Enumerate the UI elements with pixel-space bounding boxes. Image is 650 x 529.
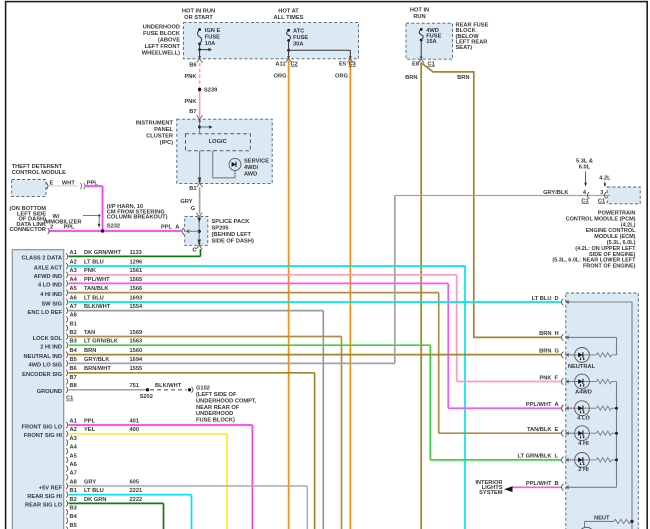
svg-text:1563: 1563: [130, 339, 143, 345]
svg-text:3: 3: [600, 190, 603, 196]
svg-text:A3: A3: [70, 436, 77, 442]
svg-text:E8: E8: [412, 61, 419, 67]
svg-text:A4WD: A4WD: [575, 390, 592, 396]
svg-text:30A: 30A: [293, 42, 303, 48]
svg-text:(IPC): (IPC): [160, 140, 173, 146]
svg-text:FUSE BLOCK): FUSE BLOCK): [196, 418, 235, 424]
svg-text:OR START: OR START: [184, 15, 213, 21]
svg-text:B6: B6: [70, 366, 77, 372]
svg-text:2222: 2222: [130, 497, 143, 503]
svg-text:A5: A5: [70, 286, 77, 292]
svg-text:GRY/BLK: GRY/BLK: [543, 190, 569, 196]
svg-text:NEAR REAR OF: NEAR REAR OF: [196, 405, 240, 411]
svg-text:S202: S202: [140, 394, 153, 400]
svg-text:YEL: YEL: [84, 427, 96, 433]
svg-text:HOT IN: HOT IN: [410, 8, 429, 14]
svg-text:COLUMN BREAKOUT): COLUMN BREAKOUT): [107, 215, 168, 221]
svg-text:PNK: PNK: [84, 268, 97, 274]
svg-text:LT GRN/BLK: LT GRN/BLK: [84, 339, 119, 345]
svg-text:TAN/BLK: TAN/BLK: [84, 286, 109, 292]
svg-text:B: B: [555, 481, 559, 487]
svg-text:IMMOBILIZER: IMMOBILIZER: [44, 220, 82, 226]
svg-text:GRY: GRY: [84, 479, 96, 485]
svg-text:SP205: SP205: [212, 226, 229, 232]
svg-text:400: 400: [130, 427, 140, 433]
svg-text:HOT AT: HOT AT: [278, 8, 299, 14]
svg-text:6.0L: 6.0L: [579, 165, 591, 171]
svg-text:(LEFT SIDE OF: (LEFT SIDE OF: [196, 392, 237, 398]
svg-text:B8: B8: [70, 383, 77, 389]
svg-text:B5: B5: [70, 357, 77, 363]
svg-text:GROUND: GROUND: [37, 389, 62, 395]
svg-text:L: L: [555, 454, 559, 460]
svg-text:CLASS 2 DATA: CLASS 2 DATA: [21, 256, 62, 262]
svg-text:1296: 1296: [130, 259, 143, 265]
svg-text:C1: C1: [598, 198, 605, 204]
svg-text:(BEHIND LEFT: (BEHIND LEFT: [212, 232, 252, 238]
svg-text:A1: A1: [70, 250, 77, 256]
svg-text:WHT: WHT: [62, 181, 75, 187]
svg-text:UNDERHOOD: UNDERHOOD: [143, 25, 180, 31]
svg-text:ALL TIMES: ALL TIMES: [274, 15, 304, 21]
svg-text:B7: B7: [70, 375, 77, 381]
svg-text:4 LO IND: 4 LO IND: [38, 283, 62, 289]
svg-text:WHEELWELL): WHEELWELL): [142, 51, 180, 57]
svg-text:B3: B3: [70, 506, 77, 512]
svg-text:BRN: BRN: [84, 348, 96, 354]
svg-text:PPL/WHT: PPL/WHT: [526, 402, 552, 408]
svg-text:PPL: PPL: [87, 181, 99, 187]
svg-text:NEUTRAL IND: NEUTRAL IND: [24, 354, 62, 360]
svg-text:B4: B4: [70, 514, 78, 520]
svg-text:A11: A11: [275, 62, 285, 68]
svg-text:B5: B5: [70, 523, 77, 529]
svg-text:PPL/WHT: PPL/WHT: [84, 277, 110, 283]
svg-text:1694: 1694: [130, 357, 143, 363]
svg-text:AFWD IND: AFWD IND: [34, 274, 62, 280]
svg-text:2221: 2221: [130, 488, 143, 494]
svg-text:B4: B4: [70, 348, 78, 354]
svg-text:A: A: [175, 225, 179, 231]
svg-text:B7: B7: [189, 109, 196, 115]
svg-text:G102: G102: [196, 386, 210, 392]
svg-text:CONTROL MODULE: CONTROL MODULE: [12, 170, 66, 176]
svg-text:4WD LO SIG: 4WD LO SIG: [29, 363, 63, 369]
svg-text:B1: B1: [189, 186, 196, 192]
svg-text:4 LO: 4 LO: [577, 416, 590, 422]
svg-text:2 HI: 2 HI: [578, 467, 589, 473]
svg-text:FUSE BLOCK: FUSE BLOCK: [143, 31, 181, 37]
svg-text:FRONT OF ENGINE): FRONT OF ENGINE): [583, 264, 636, 270]
svg-text:SW SIG: SW SIG: [41, 301, 62, 307]
svg-text:B1: B1: [70, 488, 77, 494]
svg-text:1554: 1554: [130, 304, 143, 310]
svg-text:CONNECTOR: CONNECTOR: [9, 227, 46, 233]
svg-text:G: G: [555, 349, 560, 355]
svg-text:PPL/WHT: PPL/WHT: [526, 481, 552, 487]
svg-text:C3: C3: [349, 62, 356, 68]
svg-text:LEFT FRONT: LEFT FRONT: [145, 44, 181, 50]
svg-text:GRY: GRY: [180, 199, 192, 205]
svg-text:S239: S239: [204, 88, 217, 94]
svg-text:B1: B1: [70, 321, 77, 327]
svg-text:1565: 1565: [130, 277, 143, 283]
svg-text:C1: C1: [581, 198, 588, 204]
svg-text:ENCODER SIG: ENCODER SIG: [22, 372, 62, 378]
svg-text:B3: B3: [70, 339, 77, 345]
svg-text:ORG: ORG: [335, 74, 349, 80]
svg-text:UNDERHOOD COMPT,: UNDERHOOD COMPT,: [196, 398, 257, 404]
svg-text:A3: A3: [70, 268, 77, 274]
svg-text:1561: 1561: [130, 268, 143, 274]
svg-text:4 HI IND: 4 HI IND: [40, 292, 62, 298]
svg-text:BRN/WHT: BRN/WHT: [84, 366, 111, 372]
svg-text:A4: A4: [70, 445, 78, 451]
svg-text:1566: 1566: [130, 286, 143, 292]
svg-text:10A: 10A: [205, 41, 215, 47]
svg-text:ATC: ATC: [293, 29, 304, 35]
svg-text:PNK: PNK: [539, 375, 552, 381]
svg-text:E: E: [50, 181, 54, 187]
svg-text:C2: C2: [291, 62, 298, 68]
svg-text:F: F: [555, 375, 559, 381]
svg-text:FRONT SIG HI: FRONT SIG HI: [24, 433, 63, 439]
svg-text:A2: A2: [70, 259, 77, 265]
svg-text:A1: A1: [70, 418, 77, 424]
svg-text:REAR SIG HI: REAR SIG HI: [27, 494, 62, 500]
svg-text:TAN/BLK: TAN/BLK: [527, 427, 552, 433]
svg-text:DK GRN: DK GRN: [84, 497, 106, 503]
svg-text:C1: C1: [66, 396, 73, 402]
svg-text:401: 401: [130, 418, 140, 424]
svg-text:4 HI: 4 HI: [578, 441, 589, 447]
svg-text:SIDE OF DASH): SIDE OF DASH): [212, 239, 254, 245]
svg-text:4WD/: 4WD/: [244, 165, 259, 171]
svg-text:D: D: [555, 296, 559, 302]
svg-text:SEAT): SEAT): [456, 45, 473, 51]
svg-text:A2: A2: [70, 427, 77, 433]
svg-text:C1: C1: [428, 61, 435, 67]
svg-text:A4: A4: [70, 277, 78, 283]
svg-text:B6: B6: [189, 63, 196, 69]
svg-text:B2: B2: [70, 330, 77, 336]
svg-text:LOCK SOL: LOCK SOL: [33, 336, 63, 342]
svg-text:LT BLU: LT BLU: [84, 259, 104, 265]
svg-text:FRONT SIG LO: FRONT SIG LO: [22, 424, 63, 430]
svg-text:BRN: BRN: [457, 75, 469, 81]
svg-text:ENC LO REF: ENC LO REF: [28, 310, 63, 316]
svg-text:SYSTEM: SYSTEM: [479, 490, 503, 496]
svg-text:LOGIC: LOGIC: [209, 139, 227, 145]
svg-text:LT BLU: LT BLU: [84, 295, 104, 301]
svg-text:SPLICE PACK: SPLICE PACK: [212, 219, 251, 225]
svg-text:LT GRN/BLK: LT GRN/BLK: [517, 454, 552, 460]
svg-text:THEFT DETERENT: THEFT DETERENT: [12, 164, 63, 170]
svg-text:TAN: TAN: [84, 330, 95, 336]
svg-text:BRN: BRN: [539, 331, 551, 337]
svg-text:A5: A5: [70, 453, 77, 459]
svg-text:LT BLU: LT BLU: [84, 488, 104, 494]
svg-text:AXLE ACT: AXLE ACT: [34, 265, 63, 271]
svg-text:S232: S232: [107, 223, 120, 229]
svg-text:UNDERHOOD: UNDERHOOD: [196, 411, 233, 417]
svg-text:BRN: BRN: [405, 75, 417, 81]
svg-text:A6: A6: [70, 462, 77, 468]
svg-text:605: 605: [130, 479, 140, 485]
svg-text:RUN: RUN: [413, 14, 425, 20]
svg-text:PANEL: PANEL: [154, 127, 173, 133]
svg-text:DK GRN/WHT: DK GRN/WHT: [84, 250, 121, 256]
svg-text:1569: 1569: [130, 330, 143, 336]
svg-text:A7: A7: [70, 471, 77, 477]
svg-text:+5V REF: +5V REF: [39, 485, 63, 491]
svg-text:CLUSTER: CLUSTER: [146, 133, 173, 139]
svg-text:FUSE: FUSE: [293, 35, 308, 41]
svg-text:BLK/WHT: BLK/WHT: [84, 304, 111, 310]
svg-text:H: H: [555, 331, 559, 337]
svg-text:1560: 1560: [130, 348, 143, 354]
svg-text:LT BLU: LT BLU: [532, 296, 552, 302]
svg-text:PNK: PNK: [184, 74, 197, 80]
svg-text:A6: A6: [70, 295, 77, 301]
svg-text:15A: 15A: [426, 39, 436, 45]
svg-text:NEUT: NEUT: [594, 516, 610, 522]
svg-text:INSTRUMENT: INSTRUMENT: [136, 120, 174, 126]
svg-text:A8: A8: [70, 313, 77, 319]
svg-text:AWD: AWD: [244, 172, 257, 178]
svg-text:4.2L: 4.2L: [599, 176, 611, 182]
svg-text:REAR SIG LO: REAR SIG LO: [25, 503, 63, 509]
svg-text:5.3L &: 5.3L &: [576, 159, 593, 165]
svg-text:BRN: BRN: [539, 349, 551, 355]
svg-text:NEUTRAL: NEUTRAL: [568, 364, 596, 370]
svg-text:A8: A8: [70, 479, 77, 485]
svg-text:E5: E5: [339, 62, 346, 68]
svg-text:C: C: [192, 248, 196, 254]
svg-text:GRY/BLK: GRY/BLK: [84, 357, 110, 363]
svg-text:BLK/WHT: BLK/WHT: [155, 383, 182, 389]
svg-text:2 HI IND: 2 HI IND: [40, 345, 62, 351]
svg-text:(ABOVE: (ABOVE: [158, 38, 180, 44]
svg-text:SERVICE: SERVICE: [244, 159, 269, 165]
svg-text:1555: 1555: [130, 366, 143, 372]
svg-text:G: G: [191, 206, 196, 212]
svg-text:PNK: PNK: [184, 99, 197, 105]
svg-text:HOT IN RUN: HOT IN RUN: [182, 8, 215, 14]
svg-text:A: A: [555, 402, 559, 408]
svg-text:1133: 1133: [130, 250, 142, 256]
svg-text:B2: B2: [70, 497, 77, 503]
svg-text:E: E: [555, 427, 559, 433]
svg-text:ORG: ORG: [274, 74, 288, 80]
svg-text:PPL: PPL: [84, 418, 96, 424]
svg-text:PPL: PPL: [161, 225, 173, 231]
svg-text:1693: 1693: [130, 295, 143, 301]
svg-text:A7: A7: [70, 304, 77, 310]
svg-text:751: 751: [130, 383, 140, 389]
svg-text:IGN E: IGN E: [205, 28, 221, 34]
svg-text:FUSE: FUSE: [205, 35, 220, 41]
